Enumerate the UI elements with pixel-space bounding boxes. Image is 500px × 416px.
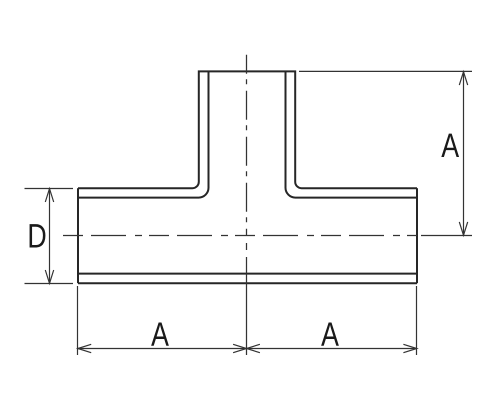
D extension top — [25, 188, 74, 190]
tee outline — [78, 71, 417, 283]
run top outer + branch outer walls — [78, 71, 417, 188]
bottom extension line right — [416, 286, 418, 355]
label A right — [441, 134, 459, 157]
run bottom outer — [78, 282, 417, 284]
label A bottom left — [151, 322, 169, 345]
right A arrow down — [459, 222, 467, 235]
vertical extension line below (solid) — [246, 257, 248, 355]
D arrow up — [45, 189, 53, 202]
label A bottom right — [321, 322, 339, 345]
run top inner + branch inner wall left — [78, 71, 209, 197]
vertical centerline last dot — [246, 243, 248, 250]
label D left — [30, 224, 46, 247]
labels (Liberation Sans glyph outlines, condensed) — [30, 134, 460, 346]
D arrow down — [45, 270, 53, 283]
vertical centerline (dash-dot) — [246, 55, 248, 236]
dimension and extension lines — [25, 71, 473, 355]
run left end — [77, 188, 79, 283]
right A dimension line — [463, 72, 465, 236]
horizontal centerline (dash-dot) — [63, 235, 417, 237]
bottom dimension line — [78, 348, 417, 350]
bottom arrow center pointing right — [233, 344, 246, 352]
branch inner wall right + run top inner right — [286, 71, 418, 197]
bottom arrow center pointing left — [247, 344, 260, 352]
D dimension line — [49, 189, 51, 284]
bottom extension line left — [77, 286, 79, 355]
horizontal centerline extension right (solid) — [421, 235, 472, 237]
D extension bottom — [25, 283, 74, 285]
run right end — [416, 188, 418, 283]
bottom arrow far left — [78, 344, 91, 352]
right A arrow up — [459, 72, 467, 85]
run bottom inner — [78, 273, 417, 275]
centerlines — [63, 55, 472, 355]
right A extension line (top) — [299, 70, 472, 72]
bottom arrow far right — [403, 344, 416, 352]
